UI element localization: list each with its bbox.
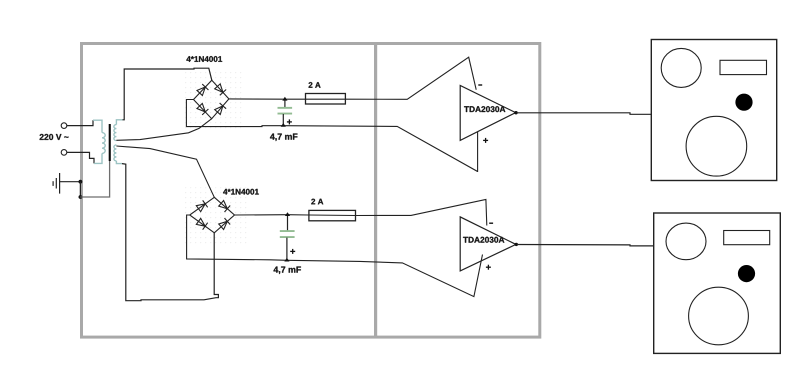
diode D5 (bridge 2, top-right) [218,200,230,212]
wire: secondary tap2 to bridge 1 AC bottom [116,119,211,141]
wire ground to enclosure [60,181,80,183]
diode D4 (bridge 1, bottom-left) [197,103,209,115]
wire: secondary tap3 to bridge 2 AC top [116,146,214,197]
SP1 tweeter [661,48,701,87]
node: C2 bottom junction [284,258,289,262]
U1 plus marker [483,138,488,143]
label 4,7 mF (C2) [274,267,301,274]
wire: bridge 1 negative rail [186,100,477,172]
label 4*1N4001 (bridge 1) [186,56,222,62]
SP1 midrange dot [735,94,752,111]
wire: chassis down along border [79,182,81,197]
op-amp U1 TDA2030A [460,86,515,141]
label TDA2030A (U1) [464,106,505,112]
transformer core [109,124,111,161]
label 2 A (fuse 1) [309,82,321,88]
C2 polarity + [290,249,295,254]
SP2 port rectangle [724,231,770,245]
wire: U2 output to speaker 2 [517,245,654,246]
enclosure divider (gray) [374,42,377,338]
secondary winding upper [116,120,122,125]
bridge rectifier B2 (diamond) [190,197,235,233]
terminal 220V top [61,123,67,129]
wire: 220V top terminal to primary [67,120,93,125]
ground [53,173,80,194]
grid dots patch around bridge 2 [184,187,248,245]
U2 plus marker [486,265,491,270]
C1 polarity + [287,119,292,124]
speaker SP2 cabinet [654,213,781,353]
capacitor C1 4,7mF [284,99,286,107]
diode D2 (bridge 1, bottom-right) [214,103,226,115]
wire: bridge 2 negative rail [187,215,483,297]
bridge rectifier B1 (diamond) [194,80,229,119]
label 220 V ~ [40,134,69,140]
diode D6 (bridge 2, bottom-right) [218,218,230,230]
secondary winding lower [114,145,117,161]
U1 minus marker [478,84,482,86]
SP1 woofer [686,116,747,176]
node: C1 bottom junction [281,123,286,127]
speaker SP1 cabinet [651,40,776,181]
wire: bridge 1 positive rail to fuse and amp [229,57,476,99]
wire: secondary top to bridge 1 AC top [123,68,212,120]
terminal 220V bottom [61,150,67,156]
capacitor C2 4,7mF [287,215,289,231]
SP2 tweeter [666,223,706,260]
diode D7 (bridge 2, top-left) [196,200,208,212]
wire: bridge 2 positive rail to fuse and amp [235,199,487,225]
enclosure box (gray) [82,44,540,338]
node: C1 top junction [282,97,287,101]
primary winding [93,120,102,132]
diode D3 (bridge 1, top-left) [197,84,209,96]
diode D8 (bridge 2, bottom-left) [196,218,208,230]
U2 minus marker [489,222,493,224]
diode D1 (bridge 1, top-right) [214,83,226,95]
node: chassis junction 2 [79,195,83,199]
label 2 A (fuse 2) [311,199,323,205]
transformer T1 [93,120,123,164]
label TDA2030A (U2) [463,237,504,243]
label 4,7 mF (C1) [270,134,297,141]
wire: U1 output to speaker 1 [517,113,652,115]
SP2 woofer [689,287,749,345]
op-amp U2 TDA2030A [460,217,516,271]
fuse F1 2A [306,94,346,105]
label 4*1N4001 (bridge 2) [223,189,259,195]
wire: 220V bottom terminal to primary [67,152,94,163]
wire: chassis to transformer core (gray) [80,161,109,197]
node: U2 output [515,243,518,246]
SP2 midrange dot [738,265,755,282]
fuse F2 2A [309,210,356,220]
node: C2 top junction [285,212,290,216]
SP1 port rectangle [720,60,767,74]
wire: secondary bottom return to bridge 2 AC bottom [122,164,218,301]
node: ground-chassis junction [79,180,83,184]
node: U1 output [514,111,517,114]
